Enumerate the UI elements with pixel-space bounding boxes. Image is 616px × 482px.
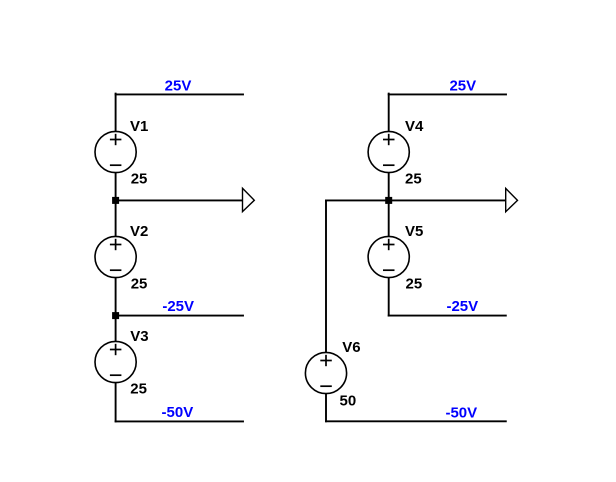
svg-text:25: 25 <box>131 170 148 187</box>
svg-text:25: 25 <box>131 276 148 293</box>
svg-text:V4: V4 <box>405 118 424 135</box>
svg-text:V1: V1 <box>130 118 148 135</box>
svg-text:-25V: -25V <box>446 298 478 315</box>
svg-text:V6: V6 <box>342 339 360 356</box>
svg-text:25V: 25V <box>165 77 192 94</box>
svg-text:25: 25 <box>405 170 422 187</box>
svg-text:25: 25 <box>130 381 147 398</box>
svg-text:-25V: -25V <box>162 298 194 315</box>
svg-text:V2: V2 <box>130 223 148 240</box>
svg-text:25V: 25V <box>449 77 476 94</box>
svg-text:-50V: -50V <box>162 404 194 421</box>
svg-text:25: 25 <box>406 276 423 293</box>
svg-text:V5: V5 <box>405 223 423 240</box>
svg-text:50: 50 <box>340 392 357 409</box>
svg-text:-50V: -50V <box>445 404 477 421</box>
svg-text:V3: V3 <box>130 328 148 345</box>
